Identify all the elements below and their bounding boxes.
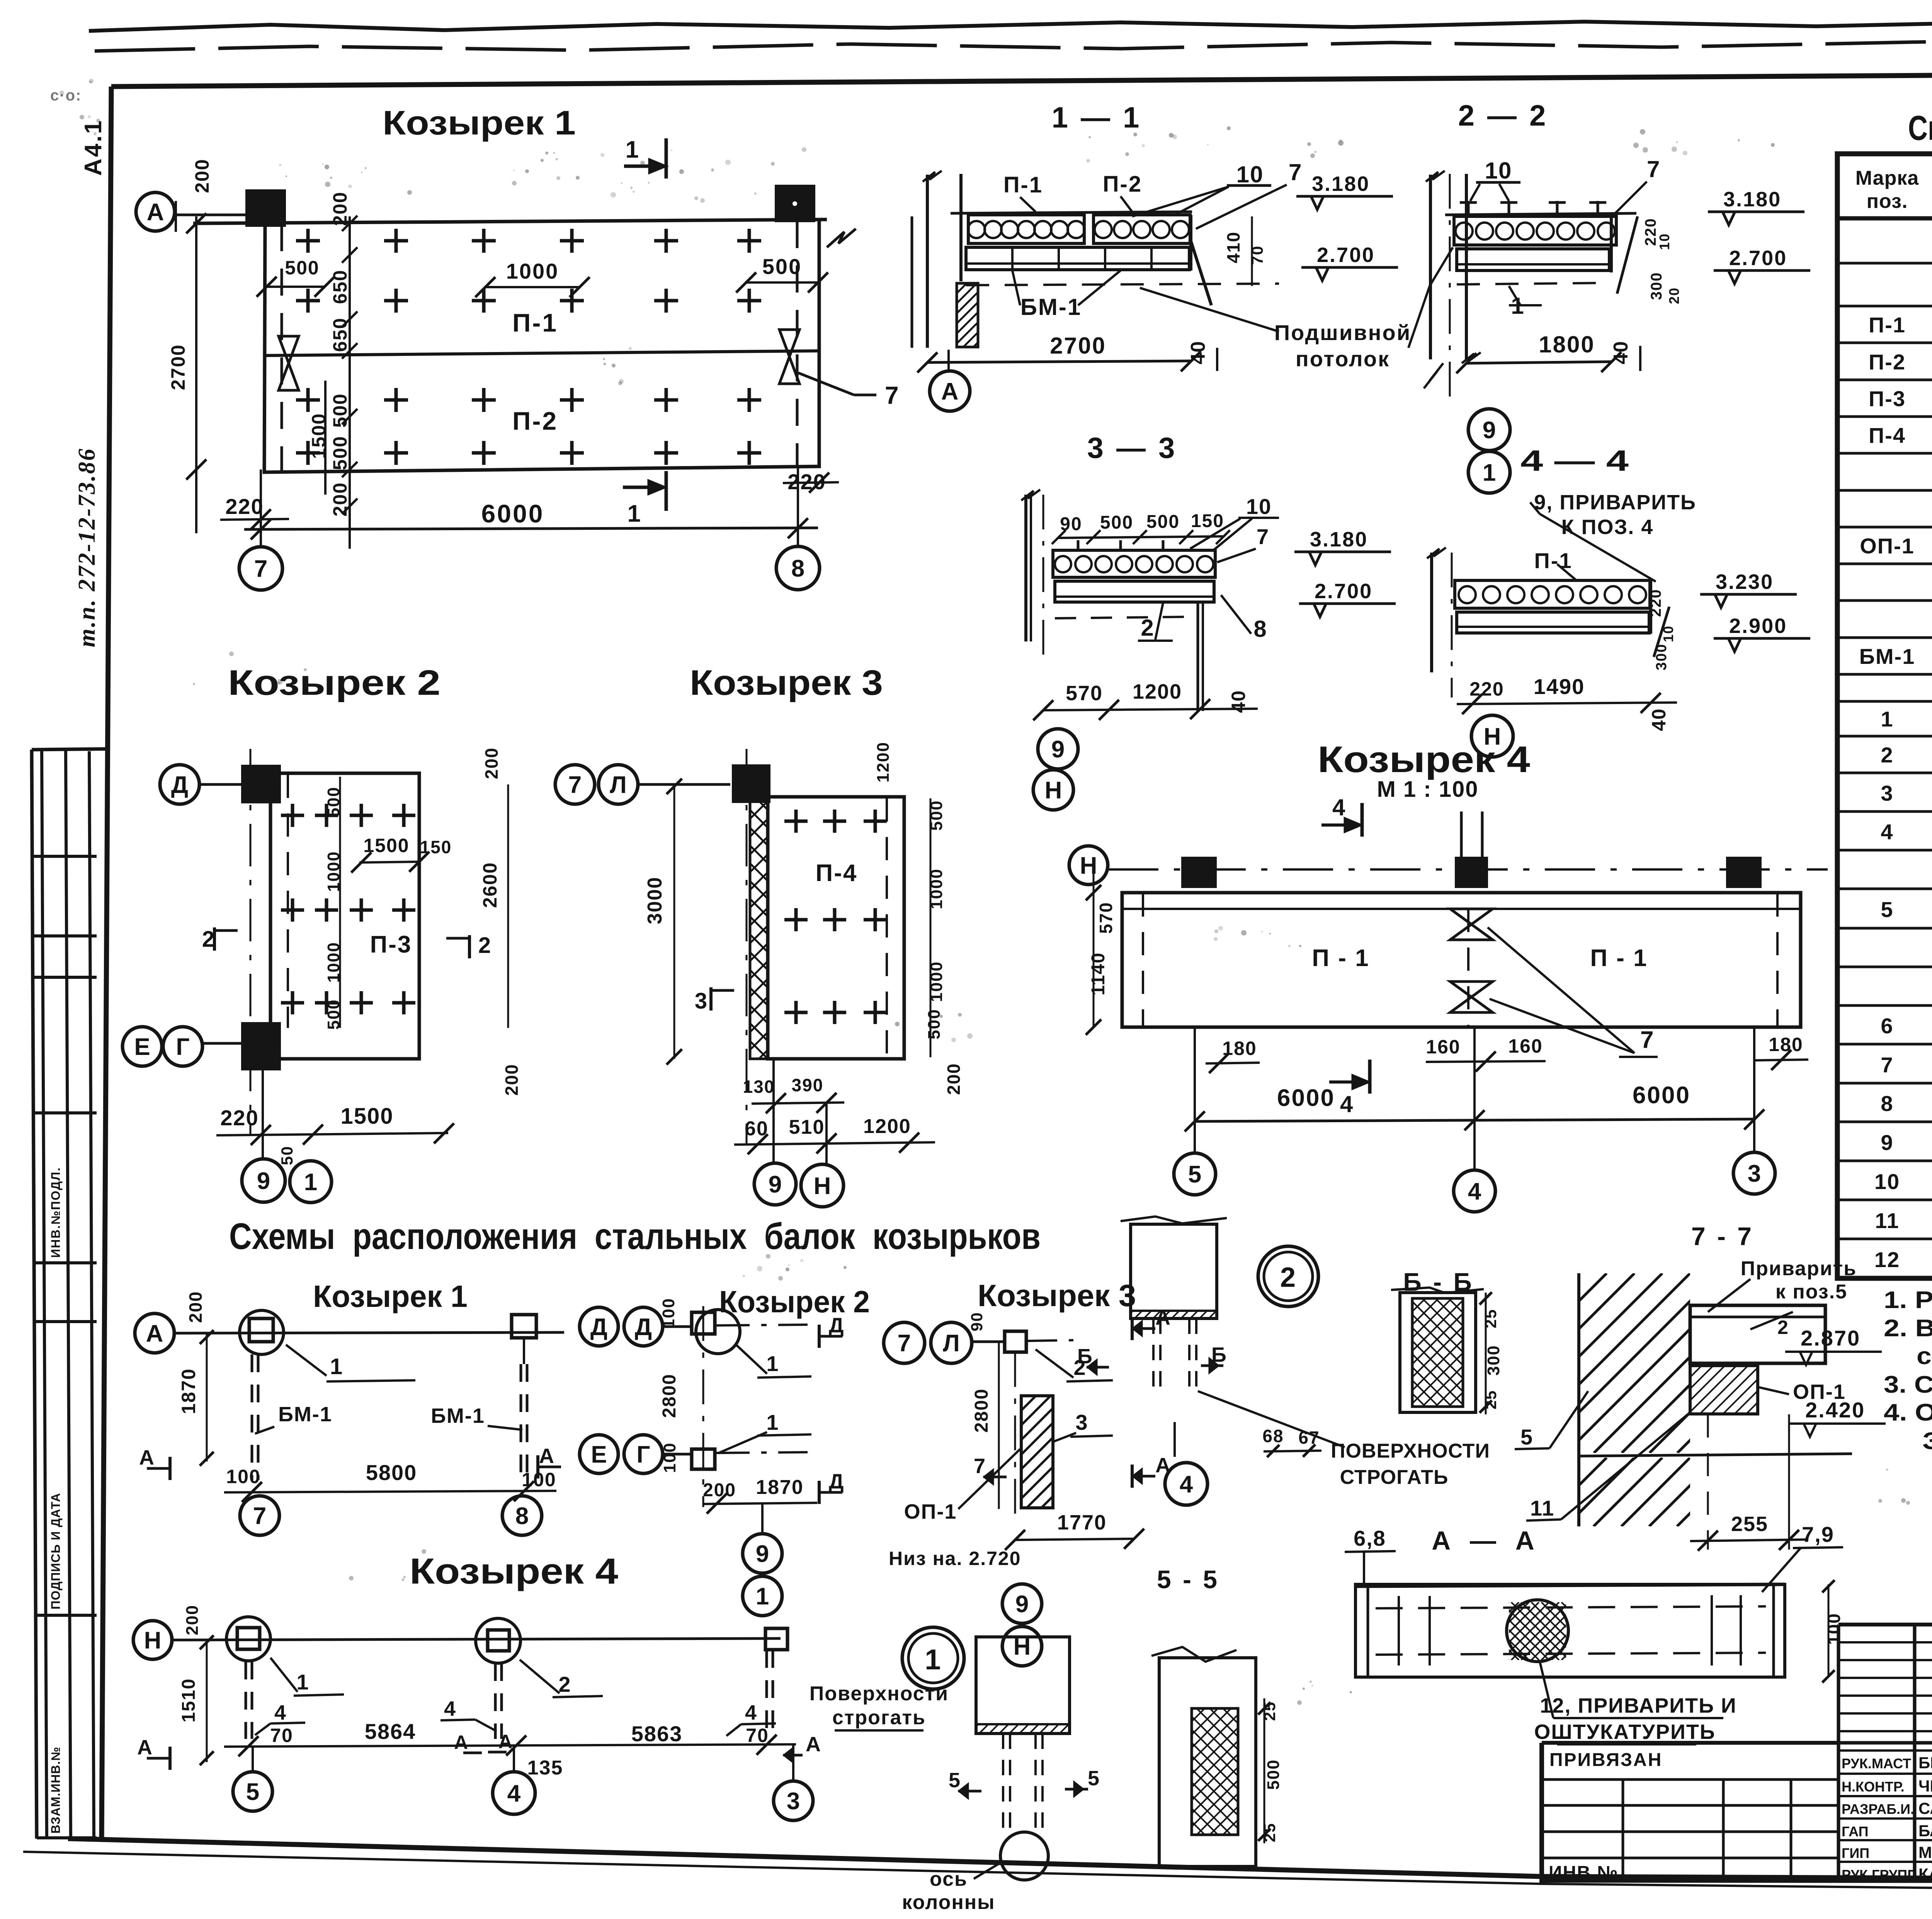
svg-text:150: 150 (420, 837, 452, 857)
detail A-A mesh circle (1507, 1600, 1568, 1662)
svg-text:СТРОГАТЬ: СТРОГАТЬ (1340, 1466, 1449, 1489)
svg-text:10: 10 (1246, 494, 1272, 519)
svg-text:А: А (147, 199, 164, 226)
frame top line (111, 71, 1932, 87)
svg-text:4. Отверстия в торцах плит зад: 4. Отверстия в торцах плит заделать бето… (1884, 1399, 1932, 1426)
svg-text:6,8: 6,8 (1354, 1526, 1386, 1550)
ceiling dashed sec2 (1457, 283, 1611, 284)
svg-text:4: 4 (1468, 1178, 1481, 1205)
svg-text:Л: Л (610, 772, 627, 798)
frame bottom line left part (68, 1839, 1542, 1876)
svg-text:1490: 1490 (1534, 674, 1585, 699)
svg-text:11: 11 (1530, 1496, 1554, 1520)
svg-text:5: 5 (949, 1769, 961, 1792)
svg-text:БМ-1: БМ-1 (1859, 644, 1915, 669)
svg-text:1000: 1000 (324, 942, 343, 983)
svg-text:Д: Д (635, 1314, 652, 1341)
axis circle A sec1 (930, 371, 970, 411)
svg-text:БАРЫШЕВА: БАРЫШЕВА (1918, 1822, 1932, 1840)
big detail circle 1 (902, 1627, 964, 1689)
wall line far left (926, 175, 929, 348)
svg-text:68: 68 (1262, 1426, 1284, 1446)
top edge wavy scan line 1 (89, 21, 1932, 31)
svg-text:70: 70 (746, 1725, 769, 1746)
svg-text:А: А (806, 1733, 821, 1756)
svg-text:строгать: строгать (832, 1706, 926, 1729)
svg-text:100: 100 (226, 1466, 260, 1487)
axis circle 1 K2 (290, 1161, 332, 1203)
svg-text:РУК.МАСТ: РУК.МАСТ (1842, 1756, 1911, 1771)
column K4 mid (filled) (1457, 859, 1486, 886)
plate outline (264, 219, 819, 472)
schema K2 circle 1 (743, 1576, 782, 1616)
svg-text:130: 130 (743, 1077, 775, 1097)
leader to label 7 (798, 373, 854, 395)
section 4 bottom mark (1368, 1060, 1372, 1094)
svg-text:Н.КОНТР.: Н.КОНТР. (1842, 1779, 1905, 1795)
svg-text:с·о:: с·о: (50, 87, 82, 104)
svg-text:2: 2 (478, 933, 492, 958)
svg-text:8: 8 (791, 555, 804, 582)
axis dashdot sec1 (947, 350, 950, 371)
svg-text:7: 7 (568, 772, 582, 798)
svg-text:П-4: П-4 (816, 860, 858, 886)
svg-text:Низ на. 2.720: Низ на. 2.720 (889, 1548, 1021, 1569)
schema K3 circle 9 (1002, 1584, 1042, 1623)
left strip divider (35, 1614, 97, 1617)
svg-text:3. Сварку вести электродами: 3. Сварку вести электродами Э42, высота … (1884, 1371, 1932, 1398)
anchors on slab top (1467, 201, 1470, 215)
column right (filled) (777, 187, 813, 220)
svg-text:25: 25 (1260, 1823, 1279, 1842)
svg-text:300: 300 (1648, 272, 1665, 300)
svg-text:2: 2 (1141, 615, 1154, 641)
right end diagonal strut (1191, 241, 1211, 305)
left strip vertical 4 (89, 751, 94, 1839)
svg-text:П-4: П-4 (1869, 423, 1906, 447)
svg-text:2800: 2800 (659, 1374, 680, 1418)
dashed vertical right (796, 221, 799, 466)
left strip divider (37, 1836, 97, 1839)
svg-text:Козырек 4: Козырек 4 (1318, 739, 1530, 780)
svg-text:3: 3 (787, 1788, 800, 1815)
svg-text:1200: 1200 (874, 742, 893, 783)
left strip outer vertical (32, 750, 37, 1839)
svg-text:1: 1 (304, 1169, 317, 1196)
svg-text:570: 570 (1096, 902, 1116, 934)
mid dashed pair K4 (1467, 909, 1469, 1026)
schema K2 dashdot vertical (702, 1306, 704, 1507)
svg-text:ИНВ.№: ИНВ.№ (1549, 1863, 1619, 1883)
svg-text:1000: 1000 (506, 259, 559, 283)
svg-text:255: 255 (1731, 1512, 1768, 1536)
detail col above circle4 outline (1131, 1224, 1217, 1318)
weld bowtie right (779, 330, 799, 357)
axis circle N K4 (1069, 846, 1108, 885)
svg-text:П-2: П-2 (1103, 172, 1142, 197)
svg-text:4 — 4: 4 — 4 (1520, 444, 1629, 477)
big detail circle 2 (1258, 1246, 1318, 1307)
svg-text:500: 500 (1100, 512, 1133, 533)
svg-text:П-3: П-3 (1869, 386, 1906, 411)
svg-text:2800: 2800 (971, 1388, 992, 1433)
svg-text:9: 9 (1483, 417, 1496, 444)
wall lines sec4 (1430, 553, 1433, 672)
hatched pier (957, 283, 978, 347)
svg-text:2700: 2700 (167, 344, 189, 390)
axis circle 7 (239, 547, 282, 590)
plus grid K3 (784, 820, 808, 823)
beam sec4 (1457, 612, 1649, 633)
svg-text:к поз.5: к поз.5 (1776, 1281, 1847, 1303)
svg-text:1. Расположение козырьков на: 1. Расположение козырьков на плане см. л… (1884, 1287, 1932, 1313)
svg-text:2: 2 (1881, 743, 1893, 767)
schema K4 circle 3 (774, 1781, 813, 1820)
schema K2 col square bottom (692, 1449, 715, 1469)
svg-text:4: 4 (444, 1697, 456, 1720)
axis circle 7 K3 (555, 765, 595, 804)
svg-text:Д: Д (590, 1314, 607, 1341)
inner vertical dim chain (349, 216, 351, 549)
plate top edge (193, 219, 827, 223)
left strip top line (32, 749, 110, 750)
svg-text:12: 12 (1874, 1247, 1900, 1272)
axis circle 9 sec3 (1038, 729, 1078, 769)
svg-text:7: 7 (254, 556, 267, 582)
signature table columns (1913, 1751, 1916, 1880)
schema K1 col circle (240, 1310, 284, 1354)
axis line down K2 (262, 1070, 264, 1159)
axis circle 4 K4 (1454, 1170, 1495, 1212)
svg-text:Козырек 2: Козырек 2 (719, 1284, 870, 1319)
column K2 top (filled) (243, 767, 279, 801)
beam sec2 (1457, 249, 1609, 270)
svg-text:100: 100 (659, 1298, 678, 1328)
detail B-B top break (1391, 1288, 1484, 1293)
svg-text:7: 7 (1881, 1053, 1893, 1077)
svg-text:25: 25 (1481, 1309, 1500, 1329)
schema K2 circles E G (580, 1435, 618, 1473)
svg-text:1500: 1500 (340, 1104, 393, 1129)
svg-text:КАРПАЧЕВА: КАРПАЧЕВА (1918, 1865, 1932, 1883)
schema K1 circle 8 (502, 1496, 542, 1535)
svg-text:П-1: П-1 (512, 308, 558, 337)
svg-text:7: 7 (253, 1503, 266, 1529)
svg-text:1510: 1510 (179, 1678, 199, 1723)
svg-text:2 — 2: 2 — 2 (1458, 99, 1548, 132)
slab section sec3 (1053, 550, 1215, 577)
svg-text:7 - 7: 7 - 7 (1691, 1222, 1754, 1250)
bottom scan shadow line (23, 1852, 1542, 1884)
svg-text:390: 390 (792, 1075, 824, 1095)
signature rows (1838, 1749, 1932, 1752)
svg-text:7: 7 (1647, 156, 1660, 182)
axis circle N sec3 (1033, 770, 1073, 810)
svg-text:3.180: 3.180 (1312, 172, 1370, 196)
svg-text:9, ПРИВАРИТЬ: 9, ПРИВАРИТЬ (1534, 491, 1696, 514)
svg-text:БИКСОН: БИКСОН (1918, 1754, 1932, 1772)
svg-text:100: 100 (660, 1442, 679, 1473)
detail B-B outline (1400, 1293, 1476, 1412)
svg-text:5800: 5800 (366, 1460, 417, 1485)
plate K3 outline (768, 797, 904, 1059)
svg-text:500: 500 (324, 999, 343, 1029)
svg-text:70: 70 (1248, 245, 1266, 265)
beam sec3 (1055, 581, 1214, 602)
svg-text:А: А (454, 1732, 469, 1753)
spec table row lines (1837, 262, 1932, 265)
svg-text:7: 7 (974, 1455, 986, 1478)
frame left line (102, 87, 111, 1839)
svg-text:500: 500 (925, 1009, 944, 1039)
slab top line sec2 (1445, 213, 1636, 215)
svg-text:1800: 1800 (1539, 332, 1595, 357)
detail A-A body (1355, 1584, 1785, 1586)
schema K4 col circle 1 (226, 1617, 270, 1661)
svg-text:7: 7 (885, 381, 900, 409)
left strip divider (32, 1111, 97, 1114)
spec table header bottom (1837, 216, 1932, 221)
col detail outline (976, 1637, 1070, 1734)
svg-text:А — А: А — А (1432, 1526, 1536, 1555)
axis circle 9 sec2 (1468, 409, 1510, 451)
svg-text:7: 7 (1257, 524, 1269, 549)
dim 1000 middle (485, 286, 580, 288)
svg-text:6000: 6000 (1277, 1085, 1335, 1111)
svg-text:220: 220 (1469, 678, 1504, 700)
svg-text:1870: 1870 (756, 1476, 804, 1499)
axis dashdot sec4 (1451, 553, 1453, 698)
axis circle A (136, 192, 175, 231)
vertical line right sec3 (1197, 603, 1199, 711)
svg-text:Л: Л (943, 1330, 960, 1357)
svg-text:5: 5 (1881, 897, 1893, 922)
svg-text:135: 135 (527, 1757, 563, 1779)
svg-text:2: 2 (1280, 1262, 1296, 1293)
svg-text:Н: Н (144, 1627, 162, 1654)
svg-text:20: 20 (1666, 287, 1682, 304)
column K4 right (filled) (1728, 859, 1760, 886)
svg-text:500: 500 (329, 393, 351, 427)
svg-text:3 — 3: 3 — 3 (1087, 432, 1177, 464)
svg-text:П-3: П-3 (370, 931, 412, 958)
svg-text:ОШТУКАТУРИТЬ: ОШТУКАТУРИТЬ (1534, 1720, 1715, 1744)
svg-text:ось: ось (930, 1868, 968, 1890)
svg-text:200: 200 (191, 158, 213, 193)
axis circle L K3 (599, 765, 638, 804)
svg-text:А: А (539, 1444, 555, 1468)
header row line (1542, 1741, 1932, 1745)
axis circle N sec4 (1471, 715, 1513, 757)
svg-text:300: 300 (1484, 1345, 1503, 1375)
svg-text:Козырек 4: Козырек 4 (410, 1551, 618, 1591)
schema K3 col square (1005, 1331, 1026, 1352)
svg-text:40: 40 (1648, 708, 1670, 731)
dashed vertical K2 (287, 775, 289, 1028)
svg-text:1: 1 (925, 1643, 941, 1676)
svg-text:500: 500 (324, 786, 343, 817)
detail col dashed bars (1152, 1318, 1155, 1390)
svg-text:1: 1 (626, 136, 639, 163)
svg-text:Схемы расположения стальных: Схемы расположения стальных балок козырь… (229, 1216, 1041, 1257)
detail 7-7 beam (1690, 1305, 1825, 1363)
svg-text:Е: Е (591, 1441, 607, 1468)
svg-text:4: 4 (1881, 820, 1893, 844)
svg-text:ПОВЕРХНОСТИ: ПОВЕРХНОСТИ (1331, 1440, 1490, 1462)
schema K1 col square right (512, 1315, 536, 1338)
axis line D (199, 783, 243, 786)
slab P-1 section (968, 215, 1084, 243)
schema K4 col square 3 (765, 1628, 787, 1650)
svg-text:40: 40 (1187, 340, 1209, 364)
column K3 (filled) (734, 766, 769, 801)
svg-text:9: 9 (1051, 736, 1065, 763)
schema K4 axis line (172, 1638, 781, 1640)
svg-text:650: 650 (329, 317, 351, 352)
svg-text:Козырек 3: Козырек 3 (690, 663, 883, 703)
svg-text:8: 8 (515, 1503, 529, 1529)
svg-text:1770: 1770 (1057, 1511, 1107, 1534)
svg-text:10: 10 (1656, 233, 1672, 250)
wall break top (923, 171, 942, 182)
axis lines down K4 (1194, 1028, 1196, 1153)
plate divider P1/P2 (265, 351, 818, 356)
title block outer (1542, 1743, 1932, 1881)
detail 7-7 floor line (1579, 1454, 1852, 1456)
svg-text:5: 5 (1520, 1425, 1533, 1449)
svg-text:Марка: Марка (1855, 167, 1919, 189)
svg-text:колонны: колонны (902, 1891, 995, 1914)
svg-text:ВЗАМ.ИНВ.№: ВЗАМ.ИНВ.№ (49, 1747, 63, 1834)
left strip vertical 3 (66, 750, 71, 1839)
svg-text:570: 570 (1066, 682, 1103, 705)
svg-text:220: 220 (220, 1106, 259, 1130)
svg-text:2.700: 2.700 (1315, 580, 1372, 603)
svg-text:7: 7 (1640, 1027, 1654, 1053)
detail circle 4 (1165, 1463, 1207, 1505)
svg-text:160: 160 (1426, 1036, 1460, 1058)
svg-text:7: 7 (1289, 159, 1302, 185)
svg-text:40: 40 (1610, 340, 1632, 364)
svg-text:9: 9 (257, 1168, 270, 1194)
beam end sec4 (1649, 580, 1652, 634)
svg-text:500: 500 (329, 436, 351, 470)
schema K4 circle N (133, 1621, 172, 1659)
svg-text:5863: 5863 (631, 1722, 683, 1746)
svg-text:А: А (137, 1736, 153, 1759)
column K4 left (filled) (1183, 859, 1215, 886)
svg-text:2. Все стальные балки оштука: 2. Все стальные балки оштукатуриваются п… (1884, 1315, 1932, 1342)
svg-text:5: 5 (1188, 1161, 1201, 1188)
schema K1 axis line (174, 1332, 564, 1333)
svg-text:1200: 1200 (1133, 680, 1182, 703)
section 4 top mark (1361, 803, 1364, 837)
svg-text:9: 9 (769, 1171, 782, 1198)
dashdot axis K3 (746, 749, 748, 1145)
dashed vertical K3 (886, 798, 888, 1057)
schema K1 beams dashed (251, 1354, 253, 1480)
axis line down to circle 8 (797, 468, 799, 546)
svg-text:3: 3 (1748, 1160, 1761, 1187)
svg-text:П-2: П-2 (512, 407, 558, 435)
svg-text:ОП-1: ОП-1 (904, 1500, 957, 1523)
svg-text:10: 10 (1485, 158, 1512, 184)
svg-text:2.870: 2.870 (1801, 1326, 1861, 1350)
svg-text:1140: 1140 (1088, 952, 1109, 995)
svg-text:3.180: 3.180 (1723, 188, 1781, 211)
svg-text:А4.1: А4.1 (80, 119, 107, 176)
svg-text:1: 1 (766, 1351, 779, 1376)
svg-text:10: 10 (1874, 1169, 1900, 1194)
svg-text:2.900: 2.900 (1729, 614, 1787, 638)
slab top line (951, 212, 1192, 213)
svg-text:П-1: П-1 (1869, 313, 1906, 337)
svg-text:3000: 3000 (644, 876, 666, 924)
svg-text:РУК.ГРУПП: РУК.ГРУПП (1842, 1867, 1917, 1883)
weld bowtie left (279, 336, 299, 363)
svg-text:МАРКОВКИН: МАРКОВКИН (1918, 1843, 1932, 1861)
left strip divider (32, 934, 97, 937)
svg-text:2700: 2700 (1050, 333, 1106, 359)
scan noise specks (600, 153, 604, 157)
svg-text:70: 70 (270, 1725, 293, 1746)
svg-text:9: 9 (1015, 1591, 1029, 1618)
axis circle 9 K2 (242, 1159, 285, 1202)
slab section sec2 (1454, 216, 1616, 245)
svg-text:ГАП: ГАП (1842, 1824, 1869, 1839)
plus grid K2 (281, 814, 304, 817)
slab section sec4 (1455, 580, 1650, 608)
schema K3 circle N (1002, 1626, 1042, 1666)
wall lines sec2 (1429, 175, 1432, 359)
svg-text:650: 650 (329, 269, 351, 304)
svg-text:М 1 : 100: М 1 : 100 (1377, 777, 1479, 802)
svg-text:1200: 1200 (863, 1115, 911, 1138)
axis line from A (175, 214, 250, 216)
svg-text:Козырек 2: Козырек 2 (228, 663, 440, 703)
svg-text:4: 4 (1332, 794, 1346, 820)
svg-text:410: 410 (1223, 231, 1243, 264)
break mark left of sec2 (1424, 363, 1443, 388)
svg-text:Г: Г (176, 1034, 189, 1060)
section mark 1 top (665, 138, 668, 179)
svg-text:ПОДПИСЬ И ДАТА: ПОДПИСЬ И ДАТА (49, 1493, 63, 1609)
bowties K4 (1450, 909, 1493, 924)
svg-text:200: 200 (944, 1063, 964, 1095)
axis dashdot sec3 (1043, 495, 1044, 657)
right end plate sec2 (1610, 215, 1613, 272)
svg-text:т.п. 272-12-73.86: т.п. 272-12-73.86 (74, 447, 100, 647)
schema K3 hatched plate OP-1 (1021, 1396, 1053, 1508)
slab P-2 section (1094, 215, 1190, 243)
svg-text:3: 3 (1075, 1410, 1088, 1434)
svg-text:1: 1 (296, 1670, 309, 1694)
svg-text:3.230: 3.230 (1716, 570, 1774, 594)
left strip divider (32, 976, 97, 979)
axis circle 1 sec2 (1468, 451, 1510, 493)
axis line down to circle 7 (260, 470, 262, 546)
detail 7-7 op1 block (1690, 1366, 1758, 1414)
svg-text:180: 180 (1769, 1034, 1803, 1055)
svg-text:7: 7 (898, 1330, 911, 1357)
svg-text:7,9: 7,9 (1802, 1522, 1834, 1546)
axis dashdot K4 (1108, 868, 1828, 871)
col detail dashed bars (1002, 1734, 1004, 1836)
svg-text:200: 200 (502, 1064, 522, 1096)
svg-text:500: 500 (762, 254, 802, 279)
plate K4 outline (1122, 893, 1801, 1027)
rot dims K2 left chain (339, 777, 341, 1028)
